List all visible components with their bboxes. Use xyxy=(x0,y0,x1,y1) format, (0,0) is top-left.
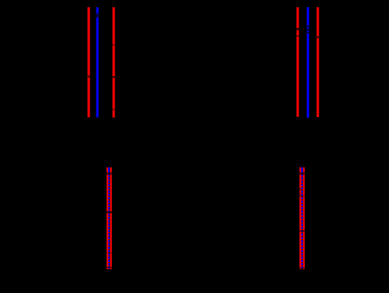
red center (under blue dashes) xyxy=(301,167,303,269)
dark seam between blue and right red xyxy=(109,167,111,269)
top-right notches xyxy=(297,28,299,30)
red left xyxy=(299,167,301,269)
red right xyxy=(303,167,305,269)
blue dashed center xyxy=(301,167,303,269)
red center (under blue dashes) xyxy=(108,167,110,269)
top-left panel: blue line xyxy=(96,7,99,117)
dark seam between blue and right red xyxy=(302,167,304,269)
top-right panel: red line 2 xyxy=(316,7,319,117)
top-right panel: blue line xyxy=(306,7,309,117)
blue dashed center xyxy=(108,167,110,269)
top-left notches (dash gaps) xyxy=(88,76,90,78)
blue solid cap (top segment) xyxy=(108,168,110,173)
red left xyxy=(107,167,109,269)
top-left panel: red line 1 xyxy=(87,7,90,117)
bottom-right dark bands xyxy=(299,172,306,174)
braid halo xyxy=(106,167,112,269)
top-right panel: red line 1 xyxy=(296,7,299,117)
braid halo xyxy=(299,167,305,269)
red right xyxy=(110,167,112,269)
blue solid cap (top segment) xyxy=(301,168,303,173)
top-left panel: red line 2 xyxy=(112,7,115,117)
bottom-left dark bands xyxy=(106,172,113,174)
